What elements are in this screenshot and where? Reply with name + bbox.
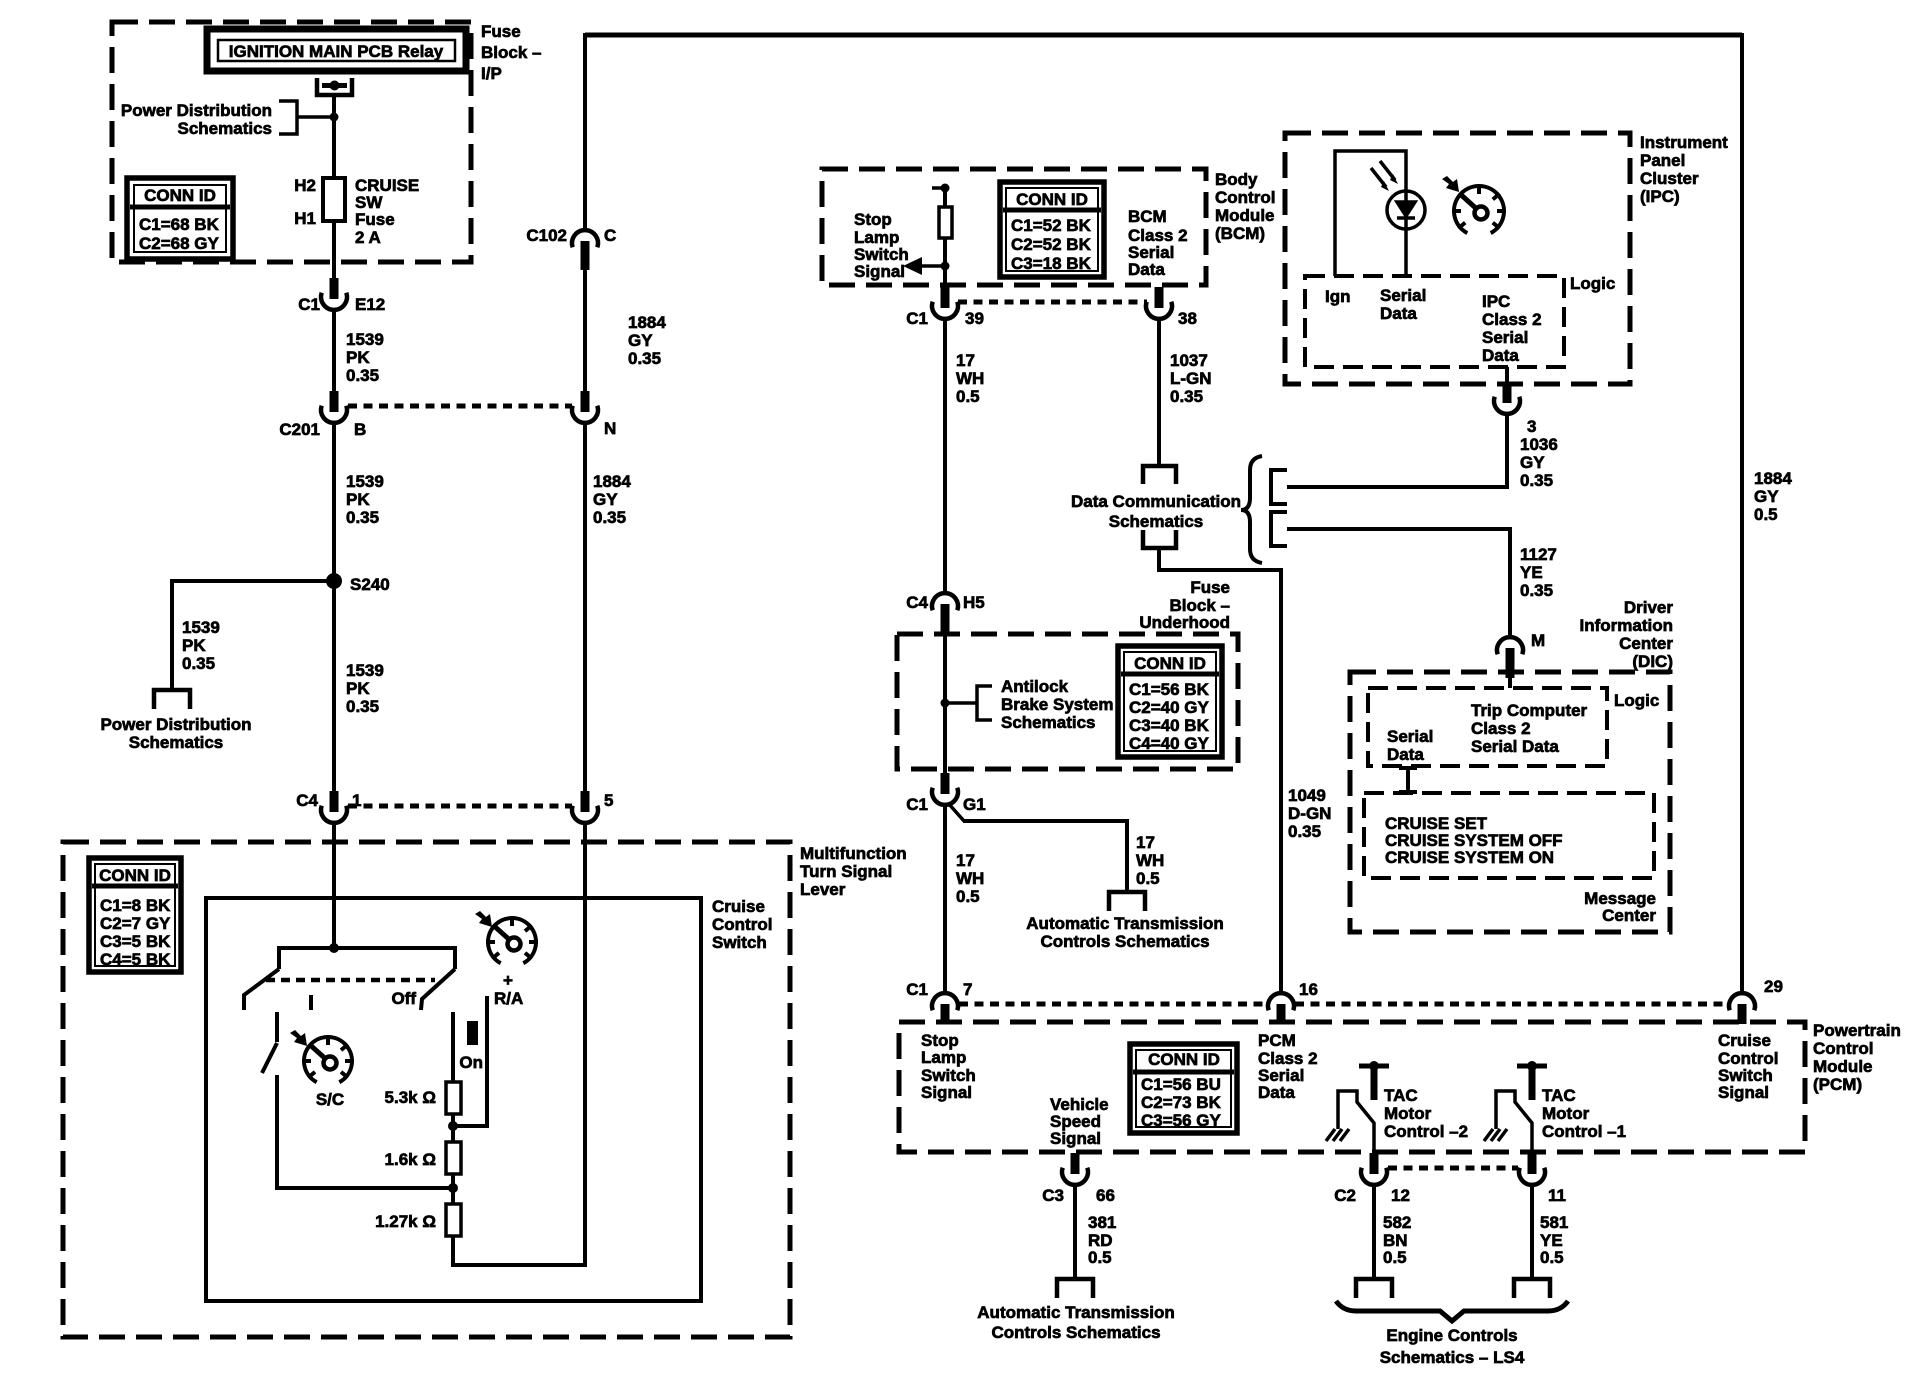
instrument panel cluster dashed box bbox=[1285, 133, 1630, 384]
svg-text:16: 16 bbox=[1299, 980, 1318, 999]
svg-text:CONN ID: CONN ID bbox=[99, 866, 171, 885]
svg-text:Serial: Serial bbox=[1482, 328, 1528, 347]
svg-text:381: 381 bbox=[1088, 1213, 1116, 1232]
svg-text:1036: 1036 bbox=[1520, 435, 1558, 454]
dotted connector line PCM bbox=[959, 1002, 1267, 1007]
serial data link I-beam bbox=[1399, 768, 1417, 792]
svg-text:1127: 1127 bbox=[1520, 545, 1557, 564]
svg-text:GY: GY bbox=[1520, 453, 1545, 472]
lamp arrows bbox=[1371, 161, 1395, 187]
svg-text:0.35: 0.35 bbox=[593, 508, 626, 527]
svg-text:IPC: IPC bbox=[1482, 292, 1510, 311]
data communication brace bbox=[1241, 456, 1262, 563]
wire lamp to logic box bbox=[1404, 229, 1408, 276]
svg-text:GY: GY bbox=[1754, 487, 1779, 506]
svg-text:0.5: 0.5 bbox=[956, 887, 980, 906]
svg-text:PK: PK bbox=[182, 636, 206, 655]
svg-text:Signal: Signal bbox=[1050, 1129, 1101, 1148]
wire data comm to PCM 16 bbox=[1159, 548, 1281, 995]
junction R/A tap bbox=[448, 1121, 458, 1131]
fuse block I/P dashed box bbox=[112, 22, 471, 262]
svg-text:WH: WH bbox=[956, 369, 984, 388]
splice S240 bbox=[326, 573, 342, 589]
svg-text:0.35: 0.35 bbox=[1520, 581, 1553, 600]
connector pin M bbox=[1497, 637, 1523, 654]
svg-text:Powertrain: Powertrain bbox=[1813, 1021, 1901, 1040]
power distribution schematics bracket bbox=[279, 101, 297, 134]
wire into switch common bbox=[332, 821, 336, 950]
svg-text:Data: Data bbox=[1482, 346, 1519, 365]
svg-text:0.5: 0.5 bbox=[956, 387, 980, 406]
off-page power distribution bbox=[154, 690, 190, 709]
svg-text:GY: GY bbox=[593, 490, 618, 509]
connector C4 pin 1 bbox=[321, 806, 347, 823]
svg-text:C4=5 BK: C4=5 BK bbox=[100, 950, 171, 969]
svg-text:Cruise: Cruise bbox=[1718, 1031, 1771, 1050]
svg-text:C4: C4 bbox=[906, 593, 928, 612]
svg-text:On: On bbox=[459, 1053, 483, 1072]
connector pin 3 bbox=[1494, 397, 1520, 414]
svg-text:Power Distribution: Power Distribution bbox=[121, 101, 272, 120]
svg-text:C1=68 BK: C1=68 BK bbox=[139, 215, 220, 234]
svg-text:C2=52 BK: C2=52 BK bbox=[1011, 235, 1092, 254]
svg-text:Class 2: Class 2 bbox=[1482, 310, 1542, 329]
wire to power distribution bracket bbox=[297, 115, 334, 119]
svg-text:Instrument: Instrument bbox=[1640, 133, 1728, 152]
svg-text:Logic: Logic bbox=[1570, 274, 1615, 293]
svg-text:Control: Control bbox=[712, 915, 772, 934]
svg-text:WH: WH bbox=[1136, 851, 1164, 870]
dotted connector line C4 bbox=[348, 804, 572, 809]
svg-text:Class 2: Class 2 bbox=[1471, 719, 1531, 738]
On contact bbox=[467, 1021, 478, 1045]
svg-text:39: 39 bbox=[965, 309, 984, 328]
svg-text:Schematics: Schematics bbox=[129, 733, 224, 752]
svg-text:Brake System: Brake System bbox=[1001, 695, 1113, 714]
svg-text:C3=56 GY: C3=56 GY bbox=[1141, 1111, 1222, 1130]
svg-text:(PCM): (PCM) bbox=[1813, 1075, 1862, 1094]
top horizontal wire 1884 GY bbox=[585, 33, 1742, 38]
switch contact plate bbox=[279, 948, 455, 969]
svg-text:C3=18 BK: C3=18 BK bbox=[1011, 254, 1092, 273]
transistor TAC driver –2 bbox=[1359, 1064, 1389, 1069]
svg-text:Data: Data bbox=[1387, 745, 1424, 764]
connector C1 pin 7 bbox=[932, 993, 958, 1010]
svg-text:Control –2: Control –2 bbox=[1384, 1122, 1468, 1141]
svg-text:Automatic Transmission: Automatic Transmission bbox=[1026, 914, 1223, 933]
connector C4 H5 bbox=[932, 593, 958, 610]
svg-text:Signal: Signal bbox=[854, 262, 905, 281]
switch bar right end bbox=[421, 969, 455, 1010]
off-page engine controls A bbox=[1356, 1279, 1392, 1298]
off-page automatic transmission bbox=[1109, 892, 1145, 911]
svg-text:Signal: Signal bbox=[1718, 1083, 1769, 1102]
svg-text:0.5: 0.5 bbox=[1540, 1248, 1564, 1267]
ground bbox=[1326, 1129, 1335, 1141]
svg-text:7: 7 bbox=[963, 980, 972, 999]
CONN ID table (BCM) bbox=[1000, 182, 1104, 277]
svg-text:C4=40 GY: C4=40 GY bbox=[1129, 734, 1210, 753]
svg-text:L-GN: L-GN bbox=[1170, 369, 1212, 388]
wire C201 to S240 to C4 bbox=[332, 423, 336, 793]
svg-text:12: 12 bbox=[1391, 1186, 1410, 1205]
data communication top bracket bbox=[1143, 466, 1176, 484]
powertrain control module dashed box bbox=[899, 1022, 1805, 1152]
relay contact symbol bbox=[317, 78, 352, 95]
svg-text:S240: S240 bbox=[350, 575, 390, 594]
svg-text:Fuse: Fuse bbox=[355, 210, 395, 229]
svg-text:17: 17 bbox=[956, 351, 975, 370]
svg-text:G1: G1 bbox=[963, 795, 986, 814]
svg-text:YE: YE bbox=[1520, 563, 1543, 582]
resistor 1.6k bbox=[446, 1142, 461, 1174]
svg-text:PK: PK bbox=[346, 679, 370, 698]
relay K: IGNITION MAIN PCB Relay box bbox=[207, 29, 466, 71]
svg-text:C3: C3 bbox=[1042, 1186, 1064, 1205]
svg-text:C1: C1 bbox=[298, 295, 320, 314]
svg-text:C2=73 BK: C2=73 BK bbox=[1141, 1093, 1222, 1112]
connector C1 G1 bbox=[932, 788, 958, 805]
wire G1 to PCM 7 bbox=[943, 805, 947, 995]
arrow icon S/C bbox=[290, 1030, 307, 1046]
connector pin 5 bbox=[572, 806, 598, 823]
BCM sense element bbox=[939, 207, 952, 238]
svg-text:Automatic Transmission: Automatic Transmission bbox=[977, 1303, 1174, 1322]
svg-text:Power Distribution: Power Distribution bbox=[100, 715, 251, 734]
svg-text:Module: Module bbox=[1813, 1057, 1873, 1076]
svg-text:0.35: 0.35 bbox=[1170, 387, 1203, 406]
svg-text:Schematics: Schematics bbox=[178, 119, 273, 138]
wire C102 to N bbox=[583, 268, 587, 392]
wire M into logic bbox=[1508, 676, 1512, 688]
svg-text:Data: Data bbox=[1128, 260, 1165, 279]
svg-text:C1=8 BK: C1=8 BK bbox=[100, 896, 171, 915]
svg-text:+: + bbox=[503, 971, 513, 990]
branch to automatic transmission bbox=[948, 803, 964, 821]
svg-text:38: 38 bbox=[1178, 309, 1197, 328]
svg-text:Stop: Stop bbox=[854, 210, 892, 229]
svg-text:C1=52 BK: C1=52 BK bbox=[1011, 216, 1092, 235]
svg-text:0.5: 0.5 bbox=[1754, 505, 1778, 524]
svg-text:Logic: Logic bbox=[1614, 691, 1659, 710]
svg-text:0.35: 0.35 bbox=[346, 366, 379, 385]
svg-text:0.35: 0.35 bbox=[628, 349, 661, 368]
svg-text:B: B bbox=[354, 420, 366, 439]
svg-text:C3=5 BK: C3=5 BK bbox=[100, 932, 171, 951]
svg-text:N: N bbox=[604, 419, 616, 438]
svg-text:Schematics – LS4: Schematics – LS4 bbox=[1380, 1348, 1525, 1367]
svg-text:Motor: Motor bbox=[1384, 1104, 1432, 1123]
wire to DIC pin M bbox=[1287, 529, 1510, 639]
svg-text:Antilock: Antilock bbox=[1001, 677, 1069, 696]
wire 11 down bbox=[1530, 1185, 1534, 1279]
svg-text:29: 29 bbox=[1764, 977, 1783, 996]
IPC gauge icon bbox=[1452, 186, 1506, 233]
svg-text:C2=7 GY: C2=7 GY bbox=[100, 914, 171, 933]
svg-text:H5: H5 bbox=[963, 593, 985, 612]
svg-text:C2: C2 bbox=[1334, 1186, 1356, 1205]
BCM internal stop lamp circuit bbox=[932, 186, 945, 190]
svg-text:Engine Controls: Engine Controls bbox=[1386, 1326, 1517, 1345]
connector C1 E12 bbox=[321, 293, 347, 310]
dotted connector line C2 bbox=[1388, 1166, 1518, 1171]
svg-text:1539: 1539 bbox=[346, 472, 384, 491]
connector C102 C bbox=[572, 230, 598, 247]
wire E12 to C201 bbox=[332, 310, 336, 392]
wire N to 5 to cruise switch bbox=[583, 423, 587, 793]
svg-text:Serial: Serial bbox=[1387, 727, 1433, 746]
svg-text:C3=40 BK: C3=40 BK bbox=[1129, 716, 1210, 735]
svg-text:Data Communication: Data Communication bbox=[1071, 492, 1241, 511]
svg-text:CONN ID: CONN ID bbox=[1016, 190, 1088, 209]
svg-text:0.35: 0.35 bbox=[346, 697, 379, 716]
svg-text:11: 11 bbox=[1548, 1186, 1566, 1205]
svg-text:1049: 1049 bbox=[1288, 786, 1326, 805]
driver information center dashed box bbox=[1350, 672, 1670, 932]
svg-text:PK: PK bbox=[346, 348, 370, 367]
svg-text:Data: Data bbox=[1258, 1083, 1295, 1102]
svg-text:CRUISE SYSTEM ON: CRUISE SYSTEM ON bbox=[1385, 848, 1554, 867]
off-page automatic transmission controls bbox=[1057, 1279, 1093, 1298]
body control module dashed box bbox=[822, 169, 1206, 285]
svg-text:5: 5 bbox=[604, 791, 613, 810]
svg-text:1884: 1884 bbox=[1754, 469, 1792, 488]
svg-text:E12: E12 bbox=[355, 295, 385, 314]
svg-text:Driver: Driver bbox=[1624, 598, 1674, 617]
ground bbox=[1484, 1129, 1493, 1141]
antilock brake dashed box bbox=[897, 634, 1238, 769]
dotted connector line BCM bbox=[958, 300, 1147, 305]
wire 12 down bbox=[1372, 1185, 1376, 1279]
svg-text:Serial Data: Serial Data bbox=[1471, 737, 1559, 756]
off-page engine controls B bbox=[1514, 1279, 1550, 1298]
connector C201 B bbox=[321, 406, 347, 423]
connector C1 pin 39 bbox=[932, 302, 958, 319]
svg-text:(DIC): (DIC) bbox=[1632, 652, 1673, 671]
svg-text:Switch: Switch bbox=[712, 933, 767, 952]
svg-text:3: 3 bbox=[1527, 417, 1536, 436]
svg-text:GY: GY bbox=[628, 331, 653, 350]
svg-text:Multifunction: Multifunction bbox=[800, 844, 907, 863]
CONN ID table (PCM) bbox=[1130, 1044, 1237, 1133]
svg-text:0.5: 0.5 bbox=[1383, 1248, 1407, 1267]
connector pin 29 bbox=[1729, 993, 1755, 1010]
svg-text:CONN ID: CONN ID bbox=[1134, 654, 1206, 673]
svg-text:0.35: 0.35 bbox=[1520, 471, 1553, 490]
svg-text:Data: Data bbox=[1380, 304, 1417, 323]
svg-text:Ign: Ign bbox=[1325, 287, 1351, 306]
CONN ID table (multifunction) bbox=[89, 858, 181, 972]
svg-text:H2: H2 bbox=[294, 176, 316, 195]
svg-text:TAC: TAC bbox=[1384, 1086, 1418, 1105]
svg-text:C2=68 GY: C2=68 GY bbox=[139, 234, 220, 253]
dotted connector line C201 bbox=[348, 404, 572, 409]
svg-text:C2=40 GY: C2=40 GY bbox=[1129, 698, 1210, 717]
svg-text:Off: Off bbox=[391, 989, 416, 1008]
wire logic to pin 3 bbox=[1505, 367, 1509, 384]
svg-text:C1: C1 bbox=[906, 309, 928, 328]
svg-text:Cruise: Cruise bbox=[712, 897, 765, 916]
resistor 1.27k bbox=[446, 1204, 461, 1236]
svg-text:TAC: TAC bbox=[1542, 1086, 1576, 1105]
svg-text:D-GN: D-GN bbox=[1288, 804, 1331, 823]
svg-text:581: 581 bbox=[1540, 1213, 1568, 1232]
CONN ID table (fuse block) bbox=[127, 178, 233, 259]
S/C switch arm bbox=[275, 1012, 279, 1042]
svg-text:H1: H1 bbox=[294, 209, 316, 228]
svg-text:C1=56 BU: C1=56 BU bbox=[1141, 1075, 1221, 1094]
svg-text:Schematics: Schematics bbox=[1109, 512, 1204, 531]
wire 66 to off-page bbox=[1073, 1185, 1077, 1279]
svg-text:CONN ID: CONN ID bbox=[144, 186, 216, 205]
connector N bbox=[572, 406, 598, 423]
svg-text:C: C bbox=[604, 226, 616, 245]
connector pin 16 bbox=[1268, 993, 1294, 1010]
svg-text:Module: Module bbox=[1215, 206, 1275, 225]
svg-text:C1: C1 bbox=[906, 795, 928, 814]
svg-text:Controls Schematics: Controls Schematics bbox=[991, 1323, 1160, 1342]
position I tick bbox=[309, 995, 313, 1010]
multifunction turn signal lever dashed box bbox=[63, 842, 790, 1337]
svg-text:(BCM): (BCM) bbox=[1215, 224, 1265, 243]
data communication bottom bracket bbox=[1143, 530, 1176, 548]
svg-text:(IPC): (IPC) bbox=[1640, 187, 1680, 206]
connector pin 11 bbox=[1519, 1168, 1545, 1185]
svg-text:M: M bbox=[1531, 631, 1545, 650]
svg-text:0.35: 0.35 bbox=[182, 654, 215, 673]
svg-text:C102: C102 bbox=[526, 226, 567, 245]
svg-text:17: 17 bbox=[956, 851, 975, 870]
connector C2 pin 12 bbox=[1361, 1168, 1387, 1185]
CONN ID table (ABS) bbox=[1118, 646, 1222, 757]
junction S/C tap bbox=[448, 1183, 458, 1193]
svg-text:Turn Signal: Turn Signal bbox=[800, 862, 892, 881]
svg-text:BCM: BCM bbox=[1128, 207, 1167, 226]
wire resistor chain bottom to 1884 wire bbox=[453, 1236, 587, 1265]
node junction to power distribution bbox=[330, 113, 339, 122]
cruise control switch box bbox=[206, 898, 701, 1301]
fuse F: CRUISE SW Fuse 2A bbox=[323, 178, 345, 221]
svg-text:Body: Body bbox=[1215, 170, 1258, 189]
svg-text:1539: 1539 bbox=[346, 330, 384, 349]
svg-text:C4: C4 bbox=[296, 791, 318, 810]
svg-text:66: 66 bbox=[1096, 1186, 1115, 1205]
svg-text:0.5: 0.5 bbox=[1088, 1248, 1112, 1267]
svg-text:Motor: Motor bbox=[1542, 1104, 1590, 1123]
connector C3 pin 66 bbox=[1062, 1168, 1088, 1185]
DIC logic dashed box bbox=[1368, 688, 1607, 766]
svg-text:1884: 1884 bbox=[593, 472, 631, 491]
svg-text:C1=56 BK: C1=56 BK bbox=[1129, 680, 1210, 699]
arrow icon IPC gauge bbox=[1442, 176, 1459, 192]
R/A gauge icon bbox=[486, 918, 538, 963]
serial data bus brackets bbox=[1271, 470, 1287, 504]
wire to IPC pin 3 bbox=[1287, 414, 1507, 487]
svg-text:S/C: S/C bbox=[316, 1090, 344, 1109]
svg-text:Lever: Lever bbox=[800, 880, 846, 899]
svg-text:PCM: PCM bbox=[1258, 1031, 1296, 1050]
svg-text:Controls Schematics: Controls Schematics bbox=[1040, 932, 1209, 951]
svg-text:PK: PK bbox=[346, 490, 370, 509]
svg-text:Fuse: Fuse bbox=[481, 22, 521, 41]
wire relay to fuse bbox=[332, 97, 336, 178]
svg-text:2 A: 2 A bbox=[355, 228, 381, 247]
svg-text:Lamp: Lamp bbox=[921, 1048, 966, 1067]
S/C gauge icon bbox=[302, 1037, 354, 1082]
svg-text:Serial: Serial bbox=[1380, 286, 1426, 305]
junction ABS tap bbox=[941, 699, 950, 708]
cruise messages dashed box bbox=[1364, 793, 1654, 878]
svg-text:0.5: 0.5 bbox=[1136, 869, 1160, 888]
wire 39 to C4 H5 bbox=[943, 319, 947, 595]
svg-text:C1: C1 bbox=[906, 980, 928, 999]
svg-text:582: 582 bbox=[1383, 1213, 1411, 1232]
connector pin 38 bbox=[1146, 302, 1172, 319]
wire fuse to C1 connector bbox=[332, 221, 336, 279]
svg-text:Schematics: Schematics bbox=[1001, 713, 1096, 732]
arrow icon R/A bbox=[475, 911, 492, 927]
svg-text:Underhood: Underhood bbox=[1139, 613, 1230, 632]
svg-text:5.3k Ω: 5.3k Ω bbox=[385, 1088, 436, 1107]
svg-text:Block –: Block – bbox=[481, 43, 541, 62]
svg-text:17: 17 bbox=[1136, 833, 1155, 852]
switch bar left end bbox=[244, 969, 279, 1010]
right vertical wire 1884 GY 0.5 bbox=[1740, 33, 1744, 995]
IPC logic dashed box bbox=[1305, 276, 1564, 367]
svg-text:Signal: Signal bbox=[921, 1083, 972, 1102]
svg-text:Control: Control bbox=[1813, 1039, 1873, 1058]
svg-text:1884: 1884 bbox=[628, 313, 666, 332]
svg-text:1539: 1539 bbox=[346, 661, 384, 680]
svg-text:Control: Control bbox=[1215, 188, 1275, 207]
svg-text:0.35: 0.35 bbox=[346, 508, 379, 527]
ABS bracket bbox=[977, 686, 992, 720]
branch wire to power distribution bbox=[172, 579, 334, 583]
wire 38 to data communication bbox=[1157, 319, 1161, 466]
svg-text:1037: 1037 bbox=[1170, 351, 1208, 370]
engine controls brace bbox=[1336, 1301, 1568, 1321]
switch travel dashed line bbox=[266, 978, 435, 983]
svg-text:Trip Computer: Trip Computer bbox=[1471, 701, 1588, 720]
svg-text:R/A: R/A bbox=[494, 989, 523, 1008]
transistor TAC driver –1 bbox=[1517, 1064, 1547, 1069]
svg-text:C201: C201 bbox=[279, 420, 320, 439]
svg-text:IGNITION MAIN PCB Relay: IGNITION MAIN PCB Relay bbox=[229, 42, 444, 61]
svg-text:Information: Information bbox=[1580, 616, 1674, 635]
svg-text:Center: Center bbox=[1619, 634, 1673, 653]
IPC internal wires bbox=[1335, 151, 1406, 276]
svg-text:1.6k Ω: 1.6k Ω bbox=[385, 1150, 436, 1169]
arrow stop lamp switch signal bbox=[921, 264, 947, 268]
svg-text:1.27k Ω: 1.27k Ω bbox=[375, 1212, 436, 1231]
svg-text:I/P: I/P bbox=[481, 64, 502, 83]
resistor chain top wire bbox=[451, 1012, 455, 1082]
svg-text:Control –1: Control –1 bbox=[1542, 1122, 1626, 1141]
svg-text:WH: WH bbox=[956, 869, 984, 888]
R/A wire bbox=[455, 996, 487, 1126]
svg-text:CONN ID: CONN ID bbox=[1148, 1050, 1220, 1069]
junction on switch bar bbox=[329, 943, 339, 953]
resistor 5.3k bbox=[446, 1082, 461, 1114]
svg-text:Cluster: Cluster bbox=[1640, 169, 1699, 188]
svg-text:1539: 1539 bbox=[182, 618, 220, 637]
indicator lamp symbol bbox=[1387, 191, 1425, 229]
svg-text:0.35: 0.35 bbox=[1288, 822, 1321, 841]
svg-text:Fuse: Fuse bbox=[1190, 578, 1230, 597]
svg-text:Panel: Panel bbox=[1640, 151, 1685, 170]
svg-text:Center: Center bbox=[1602, 906, 1656, 925]
